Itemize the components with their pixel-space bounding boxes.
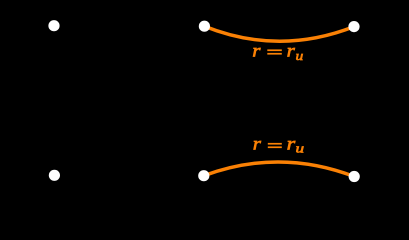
svg-text:r: r (252, 40, 260, 60)
svg-text:r: r (287, 133, 296, 153)
svg-text:r: r (287, 40, 295, 60)
svg-text:u: u (296, 48, 304, 63)
svg-text:u: u (296, 140, 305, 155)
svg-text:r: r (253, 133, 261, 153)
